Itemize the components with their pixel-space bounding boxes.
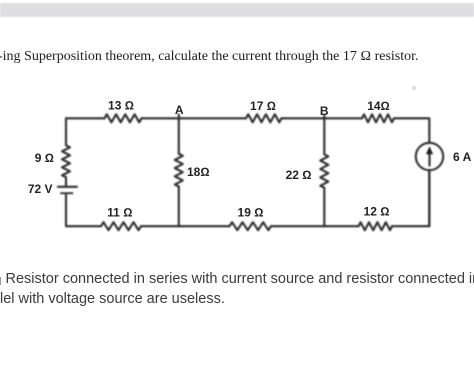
wire right vertical lower [428, 170, 430, 226]
resistor R 14ohm [362, 114, 394, 122]
wire bottom rail segment mid-right [271, 225, 359, 227]
resistor R 17ohm [246, 114, 282, 122]
svg-text:B: B [320, 104, 329, 118]
question text [0, 50, 474, 64]
svg-text:17 Ω: 17 Ω [250, 99, 276, 113]
resistor R 11ohm [101, 222, 141, 230]
wire top rail segment left [66, 117, 105, 119]
svg-text:14Ω: 14Ω [367, 99, 390, 113]
resistor R 18ohm [175, 154, 183, 187]
resistor R 13ohm [105, 114, 142, 122]
node B tick [323, 116, 325, 119]
svg-text:19 Ω: 19 Ω [238, 205, 264, 219]
svg-text:9 Ω: 9 Ω [35, 151, 54, 165]
resistor R 12ohm [359, 222, 393, 230]
current source I1 6A [416, 143, 443, 170]
wire branch B lower [323, 188, 325, 227]
svg-text:A: A [175, 103, 184, 117]
battery V1 long plate [58, 186, 77, 188]
wire bottom right corner [392, 170, 429, 226]
battery V1 short plate [61, 192, 73, 194]
wire top rail segment B [282, 117, 363, 119]
wire top right corner [394, 118, 429, 143]
resistor R 22ohm [320, 154, 328, 187]
node A tick [178, 115, 180, 119]
svg-text:12 Ω: 12 Ω [364, 205, 390, 219]
answer text [6, 270, 474, 309]
svg-text:11 Ω: 11 Ω [107, 205, 132, 219]
wire branch B upper [323, 118, 325, 154]
wire branch A lower [178, 187, 180, 227]
left-edge text fragment [0, 277, 1, 285]
current source arrow [428, 154, 430, 166]
svg-text:13 Ω: 13 Ω [108, 99, 134, 113]
resistor R 19ohm [230, 222, 272, 230]
wire top rail segment A [142, 117, 247, 119]
stray dot [412, 86, 416, 90]
svg-text:18Ω: 18Ω [187, 165, 210, 179]
wire battery upper [65, 177, 67, 186]
wire branch A upper [178, 118, 180, 154]
wire left vertical upper [65, 118, 67, 145]
svg-text:6 A: 6 A [453, 150, 472, 164]
wire bottom left corner [66, 195, 101, 226]
top gray bar [0, 3, 474, 17]
resistor R 9ohm [62, 145, 70, 177]
svg-text:72 V: 72 V [28, 182, 53, 196]
svg-text:22 Ω: 22 Ω [286, 168, 312, 182]
wire bottom rail segment mid-left [141, 225, 230, 227]
